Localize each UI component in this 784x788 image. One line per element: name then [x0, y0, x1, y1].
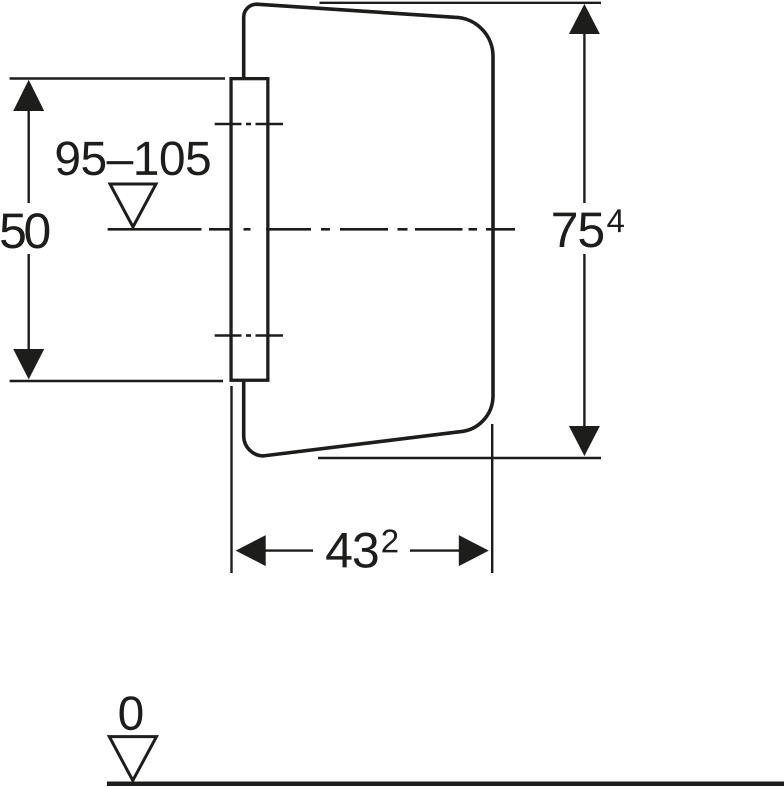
floor zero label [120, 696, 143, 730]
dim 754 extension line bottom [318, 457, 601, 459]
floor level marker [109, 737, 156, 781]
dim 432 superscript [382, 529, 397, 552]
dim 50 arrow down [13, 349, 44, 379]
dim 50 extension line top [10, 77, 225, 79]
dim 432 arrow left [236, 535, 266, 566]
cistern body outline [244, 4, 493, 456]
dim 754 superscript [607, 209, 624, 232]
dim 754 extension line top [320, 2, 602, 4]
floor line [107, 782, 784, 787]
dim 432 extension line right [491, 424, 493, 573]
dim 432 line right segment [410, 549, 462, 551]
dim 432 extension line left [230, 386, 232, 573]
dim 432 line left segment [261, 549, 313, 551]
dim 432 label [326, 533, 377, 568]
dim 754 arrow up [569, 4, 600, 34]
dim 95-105 label [57, 141, 210, 175]
centerline lower hole [215, 334, 283, 337]
dim 754 line lower segment [583, 254, 585, 429]
dim 754 label [553, 213, 603, 248]
dim 50 arrow up [13, 80, 44, 111]
centerline middle [108, 228, 515, 231]
mounting rail [231, 79, 268, 381]
dim 50 line lower segment [28, 254, 30, 352]
centerline upper hole [215, 123, 283, 126]
dim 754 arrow down [569, 426, 600, 456]
dim 754 line upper segment [583, 31, 585, 203]
dim 432 arrow right [459, 535, 489, 566]
dim 50 line upper segment [28, 108, 30, 203]
dim 50 label [1, 213, 49, 248]
level marker 95-105 [110, 184, 156, 227]
dim 50 extension line bottom [10, 380, 223, 382]
